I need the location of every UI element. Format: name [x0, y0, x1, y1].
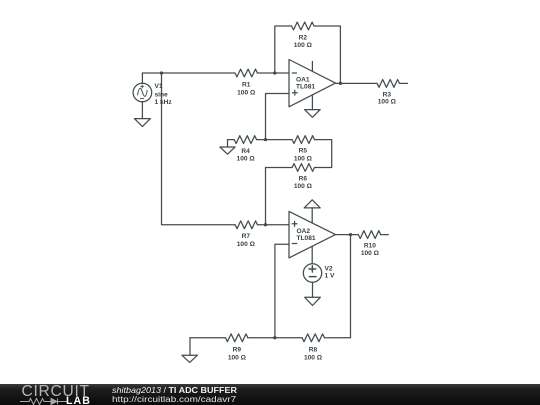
wire R3 open end — [400, 82, 408, 84]
svg-text:V1: V1 — [155, 83, 163, 90]
wire OA1 noninverting input route — [266, 94, 290, 140]
power VCC arrow (above OA2) — [304, 200, 320, 208]
svg-text:V2: V2 — [325, 265, 333, 272]
svg-text:R7: R7 — [242, 233, 251, 240]
wire R6 left down to OA2 noninverting node — [266, 168, 293, 225]
svg-text:100 Ω: 100 Ω — [294, 183, 313, 190]
svg-text:100 Ω: 100 Ω — [378, 99, 397, 106]
voltage source V2 — [303, 264, 321, 298]
label R8 value — [304, 347, 323, 362]
ground (left of R4) — [220, 140, 235, 155]
label R5 value — [294, 148, 313, 163]
label R1 value — [237, 81, 256, 96]
node junction R9/R8/OA2- — [273, 336, 276, 339]
node junction R4/R5 — [264, 138, 267, 141]
resistor R2 — [292, 22, 314, 30]
node junction R6/R7/OA2+ — [264, 223, 267, 226]
wire R4 to node — [257, 139, 266, 141]
label OA1 value — [296, 77, 315, 91]
op-amp OA1 — [289, 60, 336, 110]
resistor R3 — [377, 80, 399, 88]
ground (below V2) — [305, 297, 321, 305]
node junction OA1 output — [339, 82, 342, 85]
label V1 value — [155, 83, 173, 106]
svg-text:100 Ω: 100 Ω — [361, 250, 380, 257]
wire node to R5 — [266, 139, 293, 141]
svg-text:1 kHz: 1 kHz — [155, 99, 173, 106]
wire R5 to R6 right side — [315, 140, 332, 168]
node junction feedback/inverting input — [273, 71, 276, 74]
wire feedback right vertical — [314, 26, 340, 83]
svg-text:100 Ω: 100 Ω — [237, 90, 256, 97]
resistor R5 — [292, 136, 314, 144]
wire feedback left vertical — [275, 26, 292, 73]
resistor R8 — [302, 334, 324, 342]
svg-text:OA2: OA2 — [297, 228, 311, 235]
label V2 value — [325, 265, 335, 279]
voltage source V1 — [133, 73, 152, 119]
resistor R4 — [234, 136, 256, 144]
svg-text:R10: R10 — [364, 242, 376, 249]
wire V1 tap down to R7 row — [162, 73, 236, 225]
wire ground to R4 — [228, 139, 235, 141]
wire R7 to OA2 — [258, 224, 290, 226]
resistor R9 — [226, 334, 248, 342]
label R2 value — [294, 35, 313, 49]
label R7 value — [237, 233, 256, 248]
ground (bottom left) — [182, 338, 198, 363]
svg-text:100 Ω: 100 Ω — [237, 241, 256, 248]
resistor R6 — [292, 164, 314, 172]
svg-text:R9: R9 — [233, 347, 242, 354]
svg-text:100 Ω: 100 Ω — [294, 155, 313, 162]
svg-text:R4: R4 — [241, 148, 250, 155]
resistor R1 — [235, 69, 257, 77]
resistor R7 — [235, 221, 257, 229]
resistor R10 — [358, 231, 380, 239]
wire OA2 inverting input route — [275, 244, 289, 337]
wire R10 open end — [381, 234, 389, 236]
svg-text:TL081: TL081 — [297, 235, 316, 242]
svg-text:R8: R8 — [309, 347, 318, 354]
svg-text:100 Ω: 100 Ω — [228, 355, 247, 362]
label R10 value — [361, 242, 380, 257]
svg-text:sine: sine — [155, 91, 169, 98]
svg-text:R6: R6 — [299, 175, 308, 182]
wire OA2 output down to R8 — [325, 235, 351, 338]
svg-text:100 Ω: 100 Ω — [294, 42, 313, 49]
wire ground to R9 — [190, 337, 226, 339]
node junction OA2 output — [349, 233, 352, 236]
svg-text:TL081: TL081 — [296, 83, 315, 90]
label R4 value — [237, 148, 256, 163]
svg-text:R2: R2 — [299, 35, 308, 42]
svg-text:R1: R1 — [242, 81, 251, 88]
ground (below OA1) — [305, 110, 321, 118]
label R6 value — [294, 175, 313, 190]
label OA2 value — [297, 228, 316, 242]
op-amp OA2 — [289, 208, 336, 264]
label R3 value — [378, 91, 397, 105]
wire R9 to R8 — [248, 337, 302, 339]
wire OA1 output to R3 — [336, 82, 378, 84]
ground (below V1) — [134, 119, 150, 127]
svg-text:1 V: 1 V — [325, 273, 335, 280]
wire R1 to OA1 inverting input — [257, 72, 289, 74]
svg-text:100 Ω: 100 Ω — [237, 156, 256, 163]
svg-text:R3: R3 — [383, 91, 392, 98]
node junction V1/R7 tap — [160, 71, 163, 74]
label R9 value — [228, 347, 247, 362]
svg-text:R5: R5 — [299, 148, 308, 155]
wire V1 to R1 — [142, 72, 235, 74]
wire OA2 output to R10 — [336, 234, 359, 236]
svg-text:100 Ω: 100 Ω — [304, 355, 323, 362]
